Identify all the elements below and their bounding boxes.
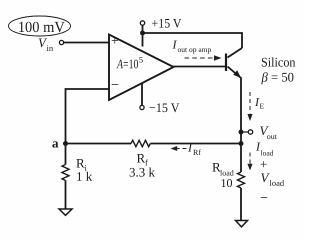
wire Rload to ground (240, 188, 242, 221)
junction +15V node (140, 31, 145, 36)
svg-text:3.3 k: 3.3 k (129, 164, 156, 179)
wire op-amp output to transistor base (174, 66, 226, 68)
svg-text:A=10: A=10 (116, 56, 138, 71)
svg-text:Rf: Rf (193, 148, 201, 157)
wire +15V node to collector (143, 33, 243, 48)
node Vout junction (239, 130, 244, 135)
source ellipse 100 mV (9, 16, 71, 36)
dashed arrow I out op amp (185, 57, 215, 59)
wire +15V to op-amp top (142, 25, 144, 46)
terminal Vin (59, 40, 63, 44)
svg-text:1 k: 1 k (76, 169, 93, 184)
wire node a down to Ri (65, 144, 67, 165)
svg-text:−: − (260, 191, 268, 206)
svg-text:10: 10 (220, 176, 232, 190)
dashed arrow I load (249, 153, 251, 164)
wire emitter node down to Rload (240, 144, 242, 173)
transistor Q1 base bar (225, 54, 227, 72)
wire Vin to op-amp + input (64, 42, 109, 44)
emitter wire down (240, 78, 242, 144)
wire Rf to emitter node (150, 143, 241, 145)
svg-text:in: in (47, 43, 54, 53)
svg-text:+15 V: +15 V (152, 15, 183, 30)
svg-text:out: out (267, 132, 278, 141)
resistor Ri zigzag (62, 165, 69, 181)
node a junction (63, 141, 68, 146)
resistor Rload zigzag (238, 172, 245, 188)
node feedback junction (239, 141, 244, 146)
op-amp U1 triangle (109, 35, 174, 101)
svg-text:E: E (260, 102, 265, 111)
wire minus input feedback (66, 89, 110, 144)
dashed arrow I Rf (177, 148, 187, 150)
svg-text:out op amp: out op amp (178, 45, 212, 54)
svg-text:Silicon: Silicon (261, 55, 296, 70)
svg-text:5: 5 (139, 54, 143, 64)
svg-text:100 mV: 100 mV (18, 19, 66, 36)
transistor Q1 collector (228, 48, 243, 58)
+15V supply terminal (140, 21, 144, 25)
ground symbol right (236, 221, 248, 227)
dashed arrow I E (249, 92, 251, 114)
svg-text:+: + (111, 33, 119, 48)
resistor Rf zigzag (131, 140, 150, 146)
wire node a to Rf (66, 143, 132, 145)
-15V wire op-amp bottom to terminal (141, 83, 143, 105)
wire Ri to ground (65, 181, 67, 210)
ground symbol left (59, 209, 72, 215)
emitter arrowhead (233, 70, 241, 78)
svg-text:−: − (111, 78, 119, 93)
svg-text:a: a (52, 135, 59, 150)
terminal Vout (248, 130, 252, 134)
svg-text:−15 V: −15 V (149, 100, 180, 115)
wire Vout stub (243, 131, 248, 133)
svg-text:β = 50: β = 50 (261, 70, 295, 85)
-15V supply terminal (140, 105, 144, 109)
svg-text:load: load (269, 178, 284, 188)
transistor Q1 emitter (228, 67, 242, 79)
